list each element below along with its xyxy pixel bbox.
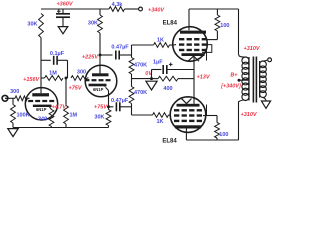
svg-text:+360V: +360V	[56, 2, 73, 8]
svg-text:6N1P: 6N1P	[36, 107, 47, 112]
svg-text:30K: 30K	[88, 21, 98, 27]
svg-text:1µF: 1µF	[153, 59, 163, 65]
svg-text:300: 300	[10, 89, 19, 95]
svg-text:EL84: EL84	[162, 138, 177, 144]
svg-text:+156V: +156V	[23, 77, 40, 83]
svg-text:+4.7V: +4.7V	[52, 105, 68, 111]
svg-text:100: 100	[219, 132, 228, 138]
svg-text:+340V: +340V	[148, 8, 165, 14]
svg-text:0.47µF: 0.47µF	[111, 98, 129, 104]
svg-text:100: 100	[220, 23, 229, 29]
svg-text:+225V: +225V	[82, 55, 99, 61]
svg-text:470K: 470K	[134, 90, 147, 96]
svg-text:340: 340	[38, 117, 47, 123]
svg-text:6N1P: 6N1P	[93, 87, 104, 92]
svg-text:+13V: +13V	[197, 75, 211, 81]
svg-text:300: 300	[77, 70, 86, 76]
svg-text:1K: 1K	[156, 119, 163, 125]
svg-text:+75V: +75V	[94, 104, 108, 110]
svg-text:+310V: +310V	[244, 46, 261, 52]
svg-text:B+: B+	[230, 72, 238, 78]
svg-text:1M: 1M	[70, 113, 78, 119]
svg-text:+310V: +310V	[241, 112, 258, 118]
svg-text:0.1µF: 0.1µF	[50, 51, 65, 57]
svg-text:4.3k: 4.3k	[112, 2, 124, 8]
svg-text:0.47µF: 0.47µF	[111, 45, 129, 51]
svg-text:+75V: +75V	[69, 86, 83, 92]
svg-text:1K: 1K	[157, 38, 164, 44]
svg-text:[+340V]: [+340V]	[220, 83, 241, 89]
svg-text:30K: 30K	[94, 115, 104, 121]
svg-text:1M: 1M	[49, 71, 57, 77]
svg-text:470K: 470K	[134, 63, 147, 69]
svg-text:EL84: EL84	[163, 20, 178, 26]
svg-text:400: 400	[163, 86, 172, 92]
svg-text:30K: 30K	[27, 22, 37, 28]
